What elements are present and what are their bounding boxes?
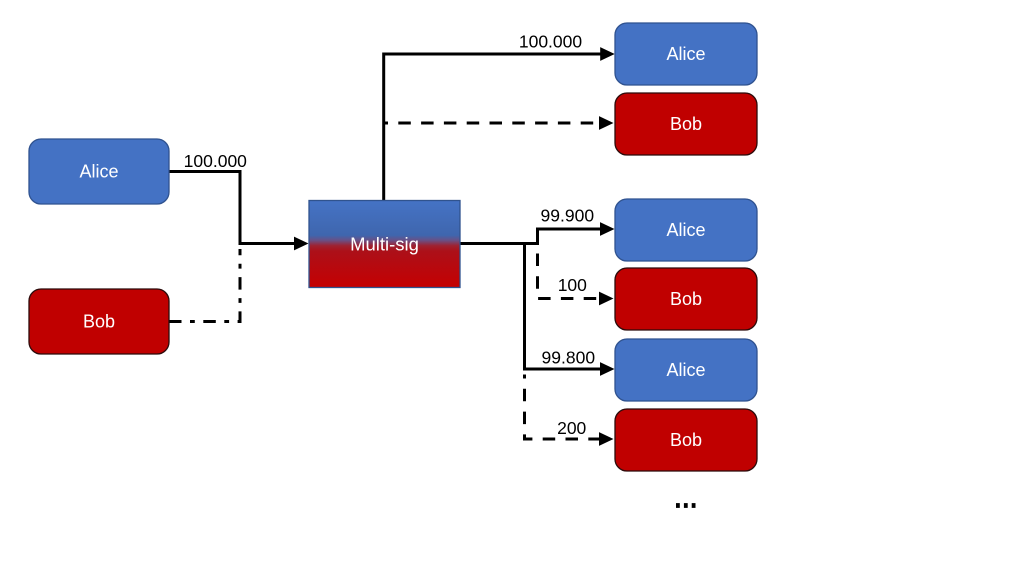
- svg-text:Alice: Alice: [666, 220, 705, 240]
- svg-text:Alice: Alice: [79, 162, 118, 182]
- svg-text:200: 200: [557, 418, 586, 438]
- svg-text:100: 100: [558, 275, 587, 295]
- svg-text:Alice: Alice: [666, 44, 705, 64]
- svg-text:Bob: Bob: [670, 289, 702, 309]
- svg-text:Multi-sig: Multi-sig: [350, 234, 419, 255]
- svg-text:Bob: Bob: [670, 114, 702, 134]
- svg-text:100.000: 100.000: [519, 32, 583, 52]
- svg-text:Bob: Bob: [83, 312, 115, 332]
- svg-text:Bob: Bob: [670, 430, 702, 450]
- svg-text:Alice: Alice: [666, 360, 705, 380]
- svg-text:100.000: 100.000: [184, 151, 248, 171]
- svg-text:99.800: 99.800: [542, 348, 596, 368]
- svg-text:99.900: 99.900: [541, 205, 595, 225]
